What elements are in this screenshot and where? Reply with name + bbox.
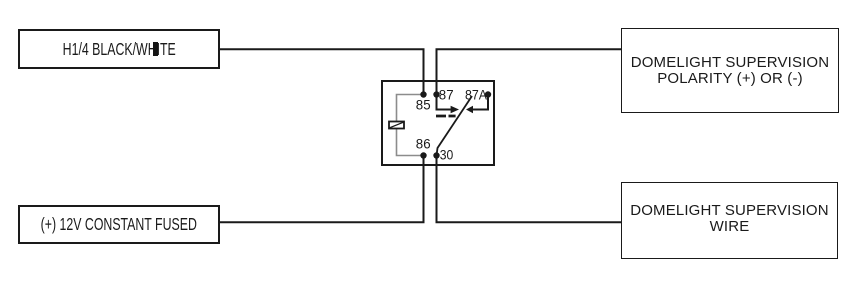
svg-text:85: 85	[416, 97, 431, 113]
svg-text:30: 30	[440, 147, 454, 163]
svg-text:87: 87	[439, 86, 454, 102]
svg-text:87A: 87A	[465, 86, 488, 102]
svg-text:86: 86	[416, 136, 431, 152]
